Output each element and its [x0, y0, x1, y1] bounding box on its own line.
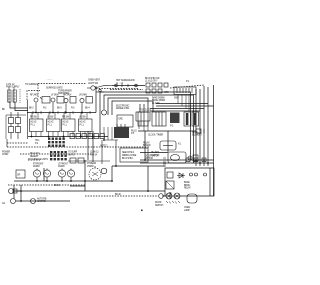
infinite switch box 1	[30, 119, 44, 132]
svg-text:H1 H2: H1 H2	[80, 122, 87, 124]
svg-text:BK W R BU: BK W R BU	[122, 158, 133, 160]
wire nested corner 5	[112, 101, 153, 115]
svg-text:P L1: P L1	[63, 124, 68, 126]
svg-text:PWR SUPPLY: PWR SUPPLY	[6, 87, 20, 89]
svg-text:R-3: R-3	[71, 108, 75, 110]
svg-text:NOTE 2: NOTE 2	[100, 145, 108, 147]
wire right bus 2	[156, 105, 214, 107]
svg-text:RELAY: RELAY	[184, 186, 191, 189]
svg-text:BAKE 2400W: BAKE 2400W	[152, 97, 166, 100]
relay box inner vertical right	[209, 168, 211, 196]
svg-text:R-2: R-2	[43, 108, 47, 110]
clock box 1	[138, 112, 148, 126]
latch switch box	[193, 155, 198, 161]
infinite switch box 2	[47, 119, 61, 132]
wire vertical x85	[84, 160, 86, 186]
wire lower run	[14, 190, 165, 192]
terminal strip pairs	[70, 134, 104, 139]
wire console dashed top	[38, 84, 86, 98]
timer motor	[168, 152, 186, 163]
svg-text:LF 240V: LF 240V	[51, 95, 59, 97]
element box B	[192, 112, 199, 126]
wire dashed band short	[7, 142, 28, 144]
wire right bus 4	[150, 110, 200, 112]
svg-text:P-5: P-5	[131, 133, 135, 135]
svg-text:GR: GR	[17, 175, 21, 177]
svg-text:BK-22: BK-22	[54, 185, 61, 187]
wire junction vertical x21	[20, 185, 22, 201]
svg-text:SWITCH: SWITCH	[155, 205, 164, 207]
svg-text:TOD CLOCK: TOD CLOCK	[139, 110, 152, 112]
wire step to lower run	[70, 186, 85, 191]
wire nested corner 3	[104, 95, 194, 163]
wire rightmost vertical	[213, 85, 215, 196]
door switch	[159, 194, 164, 199]
surface unit SU2 circles	[58, 169, 74, 182]
connector P5 hatched dark	[114, 124, 129, 138]
svg-text:CORD: CORD	[2, 154, 9, 156]
svg-text:BK-4: BK-4	[85, 108, 90, 110]
wire mid horizontal to box	[112, 165, 165, 167]
wire nested corner 2	[100, 92, 191, 160]
svg-text:HI-LIMIT: HI-LIMIT	[151, 152, 159, 154]
wire switch lower leads	[32, 132, 91, 137]
wire right bus 3	[150, 108, 204, 110]
wire vertical x44	[43, 168, 45, 181]
svg-text:UNITS: UNITS	[68, 154, 75, 156]
wire dashed band 3	[28, 159, 40, 161]
wire title block diagonal dashed	[170, 85, 204, 88]
oven light cluster	[87, 85, 112, 92]
svg-text:L1 N L2 GR Y: L1 N L2 GR Y	[145, 81, 158, 83]
svg-text:H1 H2: H1 H2	[63, 122, 70, 124]
relay board rounded box	[160, 141, 176, 150]
terminal block title squares row1	[146, 83, 168, 87]
wire right bundle vertical 1	[195, 89, 197, 166]
wire clock drop 1	[139, 104, 141, 112]
svg-text:BOARD: BOARD	[143, 144, 151, 147]
svg-text:P L1: P L1	[48, 124, 53, 126]
wire hot-surface line	[112, 85, 145, 87]
wire latch run	[140, 152, 168, 154]
svg-text:MOTOR: MOTOR	[145, 158, 153, 160]
surface unit SU3 dashed circle	[89, 166, 107, 180]
svg-text:OVEN VENT: OVEN VENT	[88, 80, 101, 82]
svg-text:RANGE CTRL: RANGE CTRL	[116, 107, 130, 110]
svg-text:H1 H2: H1 H2	[31, 122, 38, 124]
svg-text:RF SW: RF SW	[30, 117, 38, 119]
svg-text:RECEPT: RECEPT	[30, 156, 39, 158]
relay contact circles	[190, 173, 207, 176]
svg-text:P L1: P L1	[80, 124, 85, 126]
svg-text:TO SURF: TO SURF	[68, 152, 78, 154]
ground box left	[16, 170, 25, 178]
svg-text:L1 N L2: L1 N L2	[6, 82, 15, 86]
svg-text:L1 2-RD: L1 2-RD	[152, 103, 160, 105]
wire left hook	[10, 102, 28, 108]
infinite switch box 3	[62, 119, 76, 132]
wire switch upper leads	[32, 113, 87, 120]
svg-text:1500W: 1500W	[87, 166, 95, 168]
indicator light L2	[11, 199, 16, 204]
indicator feed rect	[13, 189, 17, 193]
svg-text:SEE NOTE 4: SEE NOTE 4	[122, 152, 135, 154]
relay K1 circle	[102, 110, 107, 115]
svg-text:L1 BK-12: L1 BK-12	[90, 152, 99, 154]
ERC lower leads	[104, 121, 148, 140]
surface switch group 1 pilot	[34, 97, 50, 113]
wire vertical x116	[115, 140, 117, 166]
wire nested corner 4	[108, 98, 148, 115]
latch cam circle	[188, 156, 192, 160]
wire vertical x93	[92, 131, 94, 162]
wire bottom-left vertical	[13, 185, 15, 199]
svg-text:CLOCK / TIMER: CLOCK / TIMER	[148, 134, 163, 136]
wire main bus through switches	[27, 112, 96, 114]
ERC box 2	[136, 112, 150, 121]
wire console dashed mid	[96, 88, 138, 90]
svg-text:TO SURFACE UNITS: TO SURFACE UNITS	[28, 158, 48, 161]
svg-text:P-4: P-4	[35, 143, 39, 145]
wire left column vertical	[27, 100, 29, 139]
wire right horizontal 1	[140, 159, 214, 161]
svg-text:LF SW: LF SW	[47, 117, 54, 119]
svg-text:L1 . . L2: L1 . . L2	[116, 83, 124, 85]
node ticks on bus	[33, 111, 90, 114]
svg-text:RF 240V: RF 240V	[30, 95, 39, 97]
svg-text:BK W R BU OR: BK W R BU OR	[145, 78, 160, 80]
svg-text:BK-40: BK-40	[115, 194, 122, 196]
svg-text:240V: 240V	[174, 98, 179, 100]
door plunger	[169, 192, 172, 199]
connector grid B dark	[50, 151, 67, 160]
svg-text:SURFACE UNITS: SURFACE UNITS	[46, 87, 63, 90]
wire left bottom corner	[6, 139, 8, 147]
wire terminal bus	[28, 136, 108, 138]
hot surface indicator nodes	[115, 84, 138, 87]
tick strip left of relay box	[163, 158, 166, 166]
wire right horizontal 2	[140, 162, 214, 164]
svg-text:RT REAR: RT REAR	[87, 162, 96, 165]
svg-text:BK: BK	[2, 109, 5, 111]
svg-text:RR SW: RR SW	[62, 117, 70, 119]
svg-text:P-1: P-1	[186, 81, 190, 83]
ERC box 1	[117, 115, 133, 127]
connector P2 hatched dark	[170, 113, 180, 124]
wire vertical x102	[101, 140, 103, 164]
diode in relay box	[177, 173, 185, 178]
svg-text:. . - . - . .: . . - . - . .	[46, 79, 53, 81]
svg-text:PLUG P-3: PLUG P-3	[30, 153, 40, 155]
svg-text:LR 240V: LR 240V	[79, 95, 88, 97]
relay block left outline	[6, 115, 26, 139]
wire vertical x148 lower	[147, 166, 149, 191]
svg-text:N-1: N-1	[2, 203, 6, 205]
svg-text:DOOR LATCH: DOOR LATCH	[145, 155, 159, 158]
svg-text:RELAY: RELAY	[143, 142, 150, 145]
svg-text:LAMP: LAMP	[184, 209, 190, 212]
svg-text:RR 240V: RR 240V	[63, 95, 72, 97]
wire nested corner 1	[95, 86, 97, 113]
stray mark	[141, 210, 143, 212]
small rects on right horizontals	[186, 158, 206, 162]
notes box	[120, 148, 148, 162]
wire surface dashed	[8, 184, 85, 186]
wire dashed band 1	[7, 146, 150, 148]
wire console dashed inner	[27, 91, 40, 101]
wire bottom short	[16, 200, 70, 202]
wire P1 drops	[178, 95, 189, 112]
surface switch group 3 pilot	[64, 97, 76, 113]
svg-text:2100W: 2100W	[33, 166, 41, 168]
small parts under right bus	[196, 129, 204, 133]
relay contacts grid	[9, 112, 21, 139]
svg-text:LR SW: LR SW	[79, 117, 87, 119]
svg-text:BK-2: BK-2	[29, 108, 34, 110]
connector P1 strip	[174, 87, 196, 95]
surface unit SU1 circles	[33, 169, 50, 182]
wire clock vertical lead	[144, 131, 146, 160]
svg-text:WIRING CODE: WIRING CODE	[122, 155, 137, 157]
wire dashed band 2	[20, 153, 92, 155]
relay box bottom right outline	[162, 168, 214, 196]
element box A	[184, 112, 191, 126]
indicator light L1	[9, 189, 22, 194]
wire left hook 2	[15, 102, 28, 111]
wire right bundle vertical 2	[199, 89, 201, 166]
svg-text:IGNITION: IGNITION	[37, 201, 46, 203]
svg-text:LIGHT SW: LIGHT SW	[88, 83, 99, 85]
svg-text:HOT SURFACE IND: HOT SURFACE IND	[116, 79, 135, 82]
svg-text:TB-1: TB-1	[35, 140, 40, 142]
svg-text:ERC: ERC	[119, 119, 124, 121]
wire vertical x112 lower	[111, 166, 113, 181]
wire hot-surface dashed	[110, 89, 143, 91]
wire clock vertical lead 2	[167, 131, 169, 152]
convect fan circles	[166, 193, 180, 204]
svg-text:P-2: P-2	[170, 126, 174, 128]
wire right bundle vertical 3	[203, 86, 205, 166]
wire right bus 1	[156, 103, 208, 105]
svg-text:GRD: GRD	[164, 92, 169, 94]
clock box 2	[152, 112, 166, 126]
terminal block title squares row2	[146, 89, 162, 93]
svg-text:AUTO RE-: AUTO RE-	[37, 198, 47, 201]
svg-text:ELEMENT: ELEMENT	[192, 135, 203, 137]
relay small box A	[167, 172, 173, 178]
surface switch group 4 pilot	[80, 97, 93, 113]
relay small box B	[166, 181, 174, 189]
transformer left hatched rects	[8, 87, 21, 103]
wire door switch dashed	[85, 195, 158, 197]
surface switch group 2 pilot	[51, 97, 64, 113]
svg-text:K-1: K-1	[178, 144, 182, 146]
svg-text:H1 H2: H1 H2	[48, 122, 55, 124]
svg-text:BAKE: BAKE	[184, 181, 190, 184]
wire vertical x88	[87, 131, 89, 160]
oven lamp box	[187, 194, 197, 203]
svg-text:TO SURFACE: TO SURFACE	[25, 83, 39, 86]
wire clock bottom run	[138, 130, 196, 132]
junction dots	[20, 112, 209, 202]
small boxes mid band	[68, 158, 110, 163]
infinite switch box 4	[79, 119, 93, 132]
text labels group	[2, 78, 203, 212]
wire surface bus	[14, 180, 112, 182]
svg-text:BK-3: BK-3	[57, 108, 62, 110]
svg-text:N W-14: N W-14	[90, 154, 98, 156]
connector grid A dark	[48, 138, 65, 147]
svg-text:P L1: P L1	[31, 124, 36, 126]
svg-text:2100W: 2100W	[58, 166, 66, 168]
indicator light L3	[31, 199, 36, 204]
wire right bundle vertical 4	[207, 87, 209, 166]
wire clock drop 2	[143, 104, 145, 112]
